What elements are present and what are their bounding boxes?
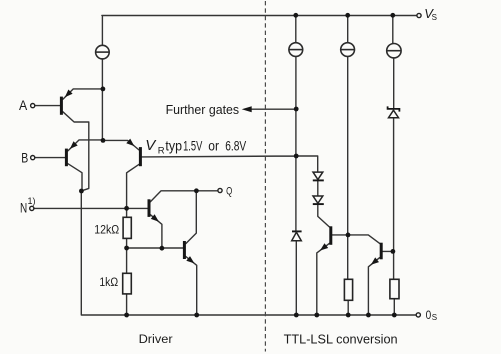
svg-text:R: R [158, 146, 165, 157]
svg-text:1.5V: 1.5V [183, 137, 203, 153]
svg-text:or: or [208, 137, 219, 153]
svg-text:6.8V: 6.8V [225, 137, 246, 153]
svg-text:1): 1) [28, 196, 36, 206]
svg-text:S: S [432, 13, 437, 22]
svg-text:typ: typ [165, 137, 182, 153]
svg-text:S: S [432, 313, 437, 322]
svg-text:N: N [20, 200, 27, 215]
svg-text:1kΩ: 1kΩ [99, 275, 118, 289]
svg-text:B: B [21, 150, 28, 165]
svg-text:12kΩ: 12kΩ [94, 223, 119, 237]
svg-text:0: 0 [426, 308, 432, 322]
svg-text:Driver: Driver [139, 332, 173, 346]
svg-text:Further gates: Further gates [166, 102, 240, 117]
svg-text:A: A [19, 98, 27, 113]
svg-text:TTL-LSL conversion: TTL-LSL conversion [284, 331, 398, 346]
svg-text:Q: Q [226, 185, 233, 197]
